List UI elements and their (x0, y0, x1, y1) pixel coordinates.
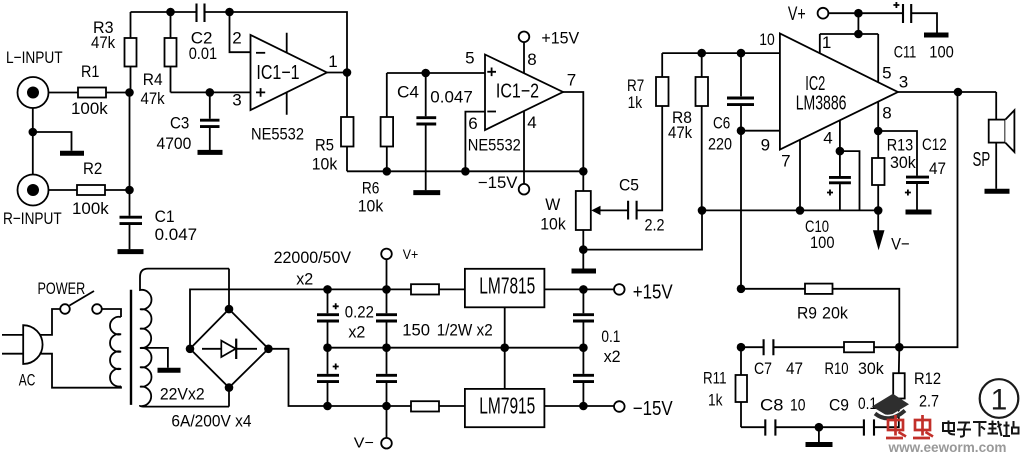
wire bridge right to V- rail (268, 349, 411, 406)
wire LM7815 out (544, 288, 614, 290)
svg-text:6: 6 (468, 114, 477, 133)
svg-text:R2: R2 (83, 159, 102, 178)
wire input interlink (32, 108, 34, 175)
svg-text:7: 7 (781, 152, 790, 171)
junction output (954, 88, 963, 97)
svg-text:100: 100 (929, 43, 954, 62)
watermark logo cap (872, 394, 909, 419)
capacitor 22000/50V bottom (317, 348, 339, 406)
resistor R11 1k (703, 347, 747, 427)
junction mid 0.1 (579, 343, 588, 352)
svg-text:220: 220 (708, 135, 732, 154)
svg-text:C5: C5 (619, 176, 639, 195)
svg-text:8: 8 (527, 50, 536, 69)
svg-text:0.01: 0.01 (189, 44, 217, 63)
svg-text:47k: 47k (668, 123, 693, 142)
bridge rectifier diamond (190, 309, 268, 388)
svg-text:0.047: 0.047 (155, 225, 198, 244)
junction bottom ground (815, 423, 824, 432)
svg-text:150: 150 (402, 321, 430, 340)
svg-text:1/2W x2: 1/2W x2 (437, 321, 493, 340)
ground speaker (985, 189, 1010, 194)
capacitor 0.22 top (376, 289, 397, 347)
resistor R7 1k (627, 53, 669, 112)
resistor V- rail (411, 401, 439, 411)
wire R-input to R2 (49, 189, 78, 191)
wire pin 3 output (898, 91, 996, 93)
capacitor 0.1 bottom (573, 348, 594, 406)
svg-text:POWER: POWER (38, 279, 86, 298)
V- terminal PSU (354, 406, 392, 452)
junction R2 node (125, 186, 134, 195)
junction pot top tap (579, 167, 588, 176)
capacitor C8 10 (741, 396, 819, 436)
op-amp IC1-1 (251, 33, 327, 144)
resistor R12 2.7 (893, 347, 941, 410)
-15V terminal PSU (614, 398, 673, 420)
junction bridge right (264, 345, 273, 354)
V- arrow terminal (873, 210, 910, 253)
capacitor C10 100 (805, 151, 851, 252)
svg-text:0.1: 0.1 (601, 327, 620, 346)
wire C6 column down (740, 131, 742, 289)
resistor R4 47k (141, 12, 177, 108)
wire pin 6 feedback (465, 112, 485, 172)
resistor R9 20k (741, 284, 899, 348)
svg-text:R13: R13 (887, 136, 914, 155)
junction R9 left (737, 285, 746, 294)
wire LM7915 out (544, 405, 614, 407)
svg-text:W: W (545, 195, 560, 214)
svg-text:30k: 30k (858, 359, 884, 378)
resistor R10 30k (825, 342, 900, 378)
wire bridge left to V+ rail (190, 289, 411, 348)
junction +15 tap (579, 285, 588, 294)
label 0.1 x2 (601, 327, 620, 366)
svg-text:L−INPUT: L−INPUT (6, 48, 63, 67)
junction C3 tap (206, 88, 215, 97)
AC plug (2, 325, 43, 389)
wire pin 7 output (563, 92, 583, 191)
wire ground stub (33, 132, 72, 151)
junction V- col1 (323, 402, 332, 411)
svg-text:2.7: 2.7 (919, 392, 939, 411)
circled page number 1 (980, 379, 1019, 418)
svg-text:R−INPUT: R−INPUT (3, 209, 62, 228)
svg-text:+15V: +15V (633, 282, 674, 304)
svg-text:V+: V+ (788, 4, 806, 25)
svg-text:R12: R12 (914, 369, 941, 388)
svg-text:AC: AC (19, 371, 36, 390)
op-amp IC1-2 (468, 55, 563, 155)
svg-text:−15V: −15V (478, 174, 518, 192)
svg-text:10: 10 (759, 30, 775, 49)
svg-text:V+: V+ (403, 246, 419, 262)
svg-text:4: 4 (527, 113, 536, 132)
svg-text:V−: V− (354, 435, 374, 452)
svg-text:4700: 4700 (157, 134, 192, 153)
svg-text:R5: R5 (315, 136, 334, 155)
svg-text:SP: SP (973, 149, 991, 171)
junction pin6 tap (461, 167, 470, 176)
ground C12 (906, 210, 932, 215)
V+ terminal PSU (381, 246, 418, 289)
junction filter col2 V+ (382, 285, 391, 294)
svg-text:3: 3 (899, 73, 908, 92)
junction V+ top wire (854, 30, 863, 39)
svg-text:100k: 100k (72, 199, 109, 218)
junction R8 top (697, 49, 706, 58)
junction pin 7 (796, 206, 805, 215)
junction C4 top (421, 69, 430, 78)
transformer secondary coil (140, 269, 229, 407)
wire R6 top to pin5 (387, 72, 485, 74)
wire pin 4 stub (839, 120, 841, 151)
svg-text:x2: x2 (604, 347, 621, 366)
resistor R3 47k (91, 12, 137, 93)
junction mid regulators (500, 343, 509, 352)
junction V- arrow (874, 206, 883, 215)
svg-text:5: 5 (465, 49, 474, 68)
regulator LM7915 (465, 389, 545, 427)
+15V terminal IC1-2 (519, 30, 580, 74)
junction filter col1 V+ (323, 285, 332, 294)
svg-text:47k: 47k (141, 89, 166, 108)
svg-text:0.047: 0.047 (430, 88, 473, 107)
transformer primary coil (110, 317, 121, 387)
svg-text:IC1−1: IC1−1 (256, 62, 299, 84)
svg-text:LM3886: LM3886 (796, 93, 847, 115)
svg-text:5: 5 (882, 64, 891, 83)
wire R1 to node (106, 92, 130, 94)
wire feedback rail top (131, 12, 348, 73)
svg-text:LM7815: LM7815 (479, 273, 535, 299)
resistor R5 10k (312, 73, 354, 174)
potentiometer W 10k (540, 191, 628, 234)
svg-text:R6: R6 (362, 179, 380, 198)
svg-text:0.22: 0.22 (345, 303, 374, 322)
speaker SP (973, 92, 1015, 189)
junction pin 8 (874, 127, 883, 136)
svg-text:22Vx2: 22Vx2 (160, 385, 205, 404)
junction bridge top (225, 305, 234, 314)
switch POWER (38, 279, 102, 314)
wire pins 1,5 V+ top (820, 13, 878, 82)
svg-text:30k: 30k (890, 153, 916, 172)
resistor R8 47k (668, 53, 708, 210)
svg-text:4: 4 (823, 129, 832, 148)
svg-text:1: 1 (822, 33, 831, 52)
center tap ground (146, 348, 181, 370)
svg-text:47: 47 (786, 359, 803, 378)
wire secondary top to bridge (228, 269, 230, 310)
wire primary bottom to plug (40, 354, 122, 388)
wire node to R2 node (129, 93, 131, 191)
resistor R6 10k (358, 73, 393, 216)
transformer core (130, 290, 132, 405)
svg-text:3: 3 (232, 91, 241, 110)
wire pot to R8 bottom (583, 210, 702, 249)
wire pin 9 (741, 130, 780, 132)
ground input (60, 151, 84, 156)
junction pot ground (579, 245, 588, 254)
ground C4 (413, 190, 440, 195)
-15V terminal IC1-2 (478, 111, 530, 195)
svg-text:2: 2 (232, 29, 241, 48)
svg-text:10k: 10k (358, 197, 384, 216)
resistor R2 100k (72, 159, 109, 218)
svg-text:IC1−2: IC1−2 (496, 81, 539, 103)
svg-text:1: 1 (328, 52, 337, 71)
wire V+ to C11 (828, 12, 903, 14)
svg-text:20k: 20k (822, 304, 848, 323)
svg-text:2.2: 2.2 (645, 216, 665, 235)
ground C11 (924, 33, 949, 38)
junction pin1 node (343, 68, 352, 77)
regulator LM7815 (465, 269, 545, 308)
resistor V+ rail (411, 284, 439, 294)
svg-text:x2: x2 (296, 270, 313, 289)
ground pot (582, 250, 584, 269)
watermark logo text chongchong (drawn) (886, 415, 933, 438)
junction pin9 tap (737, 126, 746, 135)
svg-text:R1: R1 (81, 62, 99, 81)
svg-text:7: 7 (567, 71, 576, 90)
svg-text:10k: 10k (312, 155, 338, 174)
wire bridge bottom (228, 388, 230, 407)
junction mid col1 (323, 343, 332, 352)
wire R2 to node (105, 189, 130, 191)
svg-text:100k: 100k (71, 99, 108, 118)
svg-text:V−: V− (891, 235, 910, 254)
capacitor C9 0.1 (819, 394, 899, 436)
svg-text:C3: C3 (170, 114, 189, 133)
wire pin 7 stub (799, 140, 801, 210)
capacitor C2 0.01 (189, 4, 217, 64)
junction bridge bottom (225, 383, 234, 392)
label 22000/50V x2 (274, 248, 352, 289)
wire plug to switch (40, 309, 61, 335)
capacitor 0.22 bottom (376, 348, 397, 406)
capacitor C4 0.047 (397, 73, 473, 190)
svg-text:100: 100 (810, 233, 835, 252)
ground C1 (118, 249, 144, 254)
capacitor C3 4700 (157, 92, 220, 153)
wire L-input to R1 (49, 92, 79, 94)
svg-text:C6: C6 (713, 114, 730, 133)
svg-text:47k: 47k (91, 33, 116, 52)
wire pin10 rail (662, 52, 780, 54)
wire mid rail (328, 347, 584, 349)
wire to LM7915 (439, 405, 465, 407)
capacitor C7 47 (741, 339, 844, 378)
svg-text:+15V: +15V (541, 30, 579, 48)
svg-text:6A/200V x4: 6A/200V x4 (171, 412, 251, 431)
wire signal ground rail (347, 170, 583, 172)
resistor R13 30k (872, 131, 916, 210)
capacitor C5 2.2 (619, 106, 665, 235)
junction mid col2 (382, 343, 391, 352)
capacitor C6 220 (708, 53, 754, 153)
wire switch to primary (102, 309, 121, 317)
svg-text:R4: R4 (143, 70, 163, 89)
junction pin2 tap (225, 8, 234, 17)
svg-text:R11: R11 (703, 369, 727, 388)
wire R4 to pin 3 (171, 91, 251, 93)
op-amp IC2 LM3886 (780, 33, 898, 149)
ground C3 (198, 150, 223, 155)
junction R6 bottom (383, 167, 392, 176)
svg-text:R10: R10 (825, 359, 849, 378)
watermark site name (drawn) (943, 421, 1019, 437)
junction bridge left (186, 345, 195, 354)
svg-text:C1: C1 (155, 207, 175, 226)
junction R10 right (895, 343, 904, 352)
svg-text:10: 10 (790, 396, 806, 415)
wire rail 210 (702, 209, 878, 211)
junction C6 top (737, 49, 746, 58)
wire pin1 output (327, 72, 347, 74)
svg-text:47: 47 (929, 159, 946, 178)
ground bottom (818, 427, 820, 442)
junction C7 left (737, 343, 746, 352)
svg-text:C7: C7 (754, 359, 772, 378)
svg-text:C4: C4 (397, 83, 419, 102)
capacitor C11 100 (893, 2, 953, 62)
junction -15 tap (579, 402, 588, 411)
svg-text:C11: C11 (894, 43, 917, 62)
wire output feedback down (899, 92, 957, 347)
svg-text:R9: R9 (797, 304, 817, 323)
+15V terminal PSU (614, 282, 673, 304)
label 0.22 x2 (345, 303, 374, 342)
svg-text:LM7915: LM7915 (479, 393, 535, 419)
svg-text:1k: 1k (628, 93, 643, 112)
junction R4 top (166, 8, 175, 17)
svg-text:NE5532: NE5532 (251, 125, 304, 144)
capacitor C1 0.047 (120, 190, 198, 249)
svg-text:C9: C9 (829, 396, 849, 415)
svg-text:C8: C8 (760, 396, 783, 415)
svg-text:C12: C12 (922, 135, 947, 154)
wire pin 4 to rail (840, 151, 860, 210)
junction V+ rail (854, 9, 863, 18)
svg-text:8: 8 (882, 104, 891, 123)
junction pin 4 (836, 147, 845, 156)
svg-text:NE5532: NE5532 (468, 136, 521, 155)
svg-text:−15V: −15V (633, 398, 674, 420)
resistor R1 100k (71, 62, 108, 118)
capacitor C12 47 (878, 131, 947, 210)
svg-text:x2: x2 (348, 323, 365, 342)
capacitor 0.1 top (573, 289, 594, 347)
L-INPUT RCA connector (6, 48, 63, 108)
junction interlink (29, 128, 38, 137)
V+ terminal (788, 4, 828, 25)
junction input node (125, 88, 134, 97)
R-INPUT RCA connector (3, 175, 62, 229)
svg-text:0.1: 0.1 (858, 394, 877, 413)
junction V- col2 (382, 402, 391, 411)
svg-text:9: 9 (761, 136, 770, 155)
svg-text:1k: 1k (708, 391, 723, 410)
wire pin 8 stub (877, 102, 879, 131)
wire pot bottom (582, 230, 584, 250)
capacitor 22000/50V top (317, 289, 339, 347)
svg-text:www.eeworm.com: www.eeworm.com (888, 439, 1007, 453)
junction R8 bottom (698, 206, 707, 215)
svg-text:22000/50V: 22000/50V (274, 248, 352, 267)
svg-text:1: 1 (991, 384, 1008, 417)
wire to LM7815 (439, 288, 465, 290)
svg-text:10k: 10k (540, 215, 566, 234)
wire regulators mid link (504, 307, 506, 389)
wire to pin 2 (230, 12, 251, 52)
